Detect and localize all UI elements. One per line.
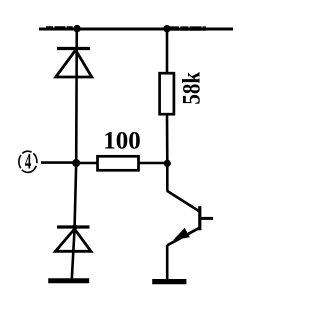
resistor R2 body (58k) bbox=[160, 73, 174, 114]
node: junction of rail and 58k branch bbox=[163, 25, 170, 32]
node: junction of rail and left diode branch bbox=[73, 25, 80, 32]
wire: resistor R1 to right branch junction bbox=[139, 162, 169, 165]
wire: top supply rail bbox=[39, 28, 233, 31]
wire: resistor R2 to collector junction bbox=[166, 114, 169, 192]
diode D1 cathode bar bbox=[57, 47, 90, 50]
transistor Q1 emitter arrow (NPN) bbox=[175, 229, 189, 240]
diode D2 triangle bbox=[55, 229, 91, 251]
svg-text:4: 4 bbox=[25, 149, 31, 173]
diode D1 triangle bbox=[56, 50, 92, 77]
transistor Q1 base bar bbox=[198, 206, 201, 230]
wire: left branch junction to resistor R1 bbox=[76, 162, 97, 165]
terminal node 4 circle bbox=[19, 151, 37, 172]
svg-text:58k: 58k bbox=[178, 72, 206, 105]
wire: ink blotch on rail left of first junction bbox=[46, 26, 73, 30]
transistor Q1 collector lead bbox=[167, 191, 199, 212]
transistor Q1 base lead stub bbox=[200, 217, 213, 220]
ground symbol at left branch bbox=[48, 278, 89, 283]
wire: emitter to ground bbox=[166, 245, 169, 280]
wire: right branch from rail to resistor R2 bbox=[166, 29, 169, 74]
resistor R1 body (100) bbox=[98, 156, 139, 170]
node: small blob where D2 bar meets wire bbox=[72, 224, 78, 230]
wire: left vertical branch (rail to bottom ground) bbox=[72, 29, 77, 279]
svg-text:100: 100 bbox=[103, 128, 141, 155]
diode D2 cathode bar bbox=[57, 225, 90, 228]
wire: node 4 to left branch bbox=[41, 161, 78, 164]
node: junction of R1, R2 and collector bbox=[164, 160, 171, 167]
wire: ink blotch on rail right of second junction bbox=[170, 26, 206, 30]
ground symbol at emitter bbox=[152, 279, 186, 284]
transistor Q1 emitter lead bbox=[167, 228, 199, 245]
node: junction of node-4 wire and left branch bbox=[72, 159, 80, 167]
